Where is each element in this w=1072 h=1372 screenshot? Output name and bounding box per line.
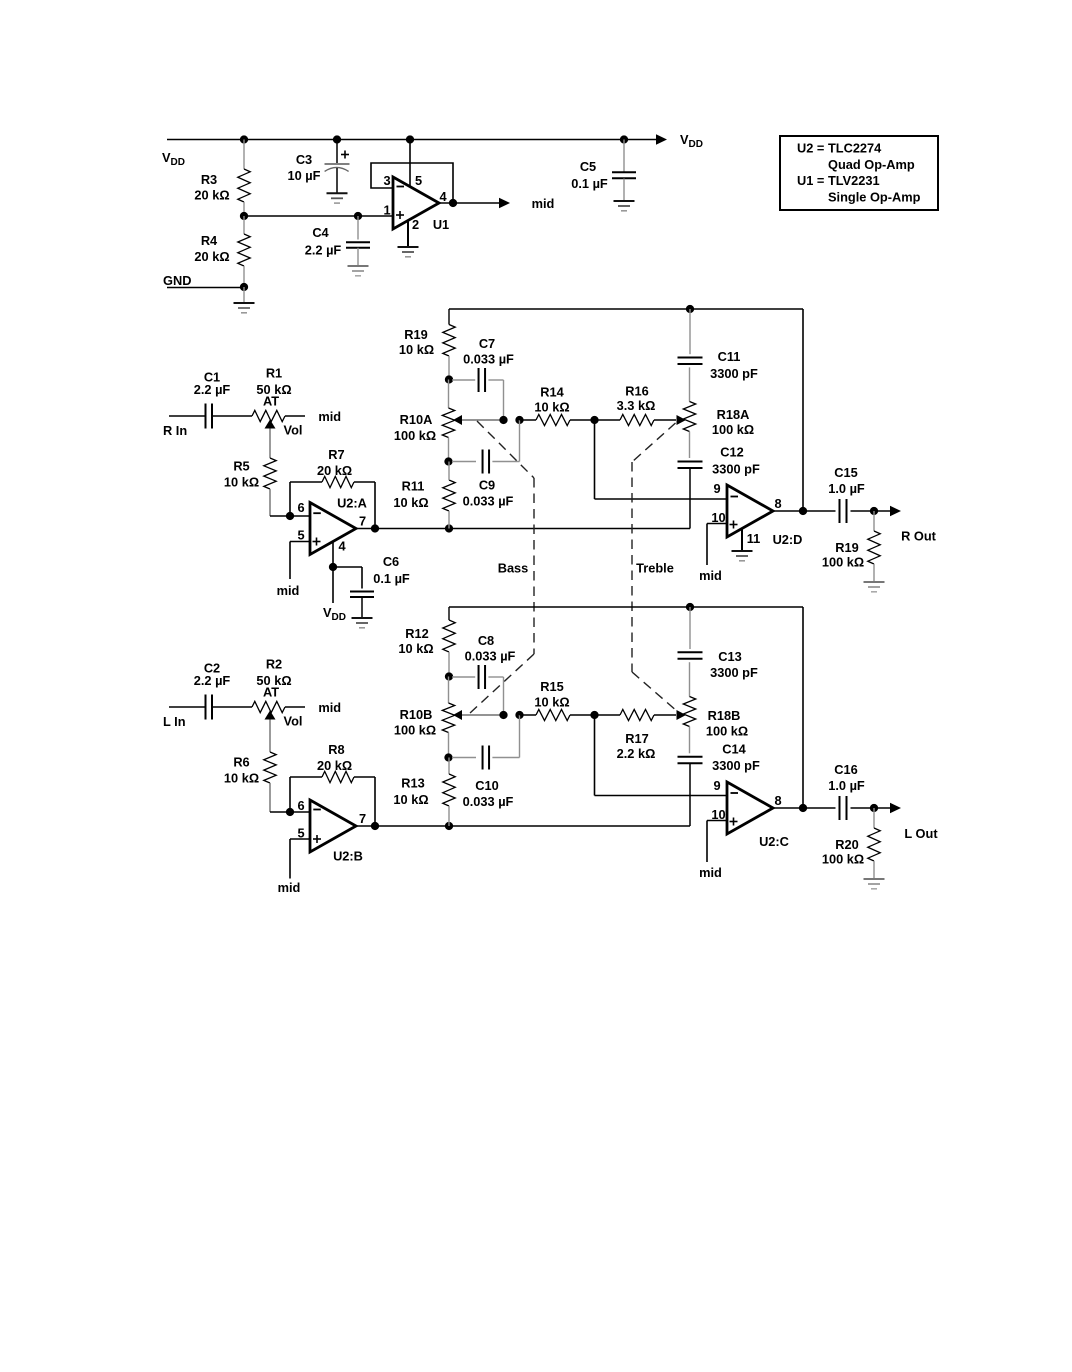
wire U2A pin4: [332, 542, 334, 568]
info box: [780, 136, 938, 210]
wire C2 to R2: [212, 706, 252, 708]
label R19 upper: [399, 327, 434, 357]
plus U2B: [313, 835, 321, 843]
svg-text:10 kΩ: 10 kΩ: [398, 641, 433, 656]
svg-text:3300 pF: 3300 pF: [710, 366, 758, 381]
svg-text:10 kΩ: 10 kΩ: [534, 695, 569, 710]
svg-text:C13: C13: [718, 649, 741, 664]
label C2: [194, 661, 231, 689]
svg-text:C15: C15: [834, 465, 857, 480]
svg-text:1: 1: [383, 203, 390, 218]
label C5: [571, 159, 608, 191]
pin 10 label U2C: [711, 807, 725, 822]
arrow mid U1: [499, 198, 510, 208]
node U2A out: [371, 524, 379, 532]
svg-text:R18B: R18B: [708, 708, 741, 723]
svg-text:C10: C10: [475, 778, 498, 793]
label L In: [163, 714, 186, 729]
svg-text:mid: mid: [699, 865, 722, 880]
node wiper-C10: [515, 711, 523, 719]
resistor R19 out: [868, 511, 880, 582]
pin 8 label U2D: [774, 496, 781, 511]
svg-text:10 kΩ: 10 kΩ: [393, 792, 428, 807]
wire GND: [167, 287, 244, 289]
wire pin4 to VDD: [332, 567, 334, 603]
plus mark C3: [341, 151, 349, 159]
wire lower feedback top: [449, 606, 803, 608]
wire U2A output row: [356, 528, 690, 530]
svg-text:R2: R2: [266, 657, 282, 672]
capacitor C15: [840, 499, 847, 523]
svg-text:4: 4: [338, 539, 346, 554]
node R15-R17: [590, 711, 598, 719]
potentiometer R10A: [442, 380, 454, 462]
svg-text:100 kΩ: 100 kΩ: [394, 723, 436, 738]
potentiometer R2: [252, 701, 285, 712]
svg-text:20 kΩ: 20 kΩ: [194, 188, 229, 203]
svg-text:3300 pF: 3300 pF: [712, 758, 760, 773]
wire U1 pin2: [407, 221, 409, 248]
node wiper-C7: [499, 416, 507, 424]
svg-text:R5: R5: [233, 459, 249, 474]
svg-text:R13: R13: [401, 776, 424, 791]
node R19 out top: [870, 507, 878, 515]
wire R2 to mid: [285, 706, 305, 708]
svg-text:3300 pF: 3300 pF: [712, 462, 760, 477]
potentiometer R18A: [683, 367, 695, 458]
dashed Treble link: [632, 423, 678, 712]
resistor R16: [595, 414, 677, 425]
label R12: [398, 626, 433, 656]
svg-text:100 kΩ: 100 kΩ: [706, 724, 748, 739]
wire upper feedback top: [449, 308, 803, 310]
wire U1 pin5: [409, 140, 411, 188]
svg-text:100 kΩ: 100 kΩ: [822, 555, 864, 570]
label C14: [712, 742, 760, 774]
pin 4 label U2A: [338, 539, 346, 554]
svg-text:10 kΩ: 10 kΩ: [224, 771, 259, 786]
capacitor C9: [452, 450, 520, 474]
label mid U2D: [699, 568, 722, 583]
label mid U2B: [278, 880, 301, 895]
capacitor C8: [452, 665, 504, 689]
wire R8 right leg: [374, 777, 376, 826]
pin 5 label U2A: [297, 528, 304, 543]
label Bass: [498, 561, 529, 576]
svg-text:L In: L In: [163, 714, 186, 729]
info text line4: [828, 189, 921, 204]
arrow R Out: [890, 506, 901, 516]
svg-text:4: 4: [439, 189, 447, 204]
wire R1 to mid: [285, 415, 305, 417]
svg-text:R19: R19: [835, 540, 858, 555]
wire R7 left leg: [289, 482, 291, 516]
node wiper-C8: [499, 711, 507, 719]
wire U2C output: [773, 807, 836, 809]
node R10B bottom: [444, 753, 452, 761]
plus U1 pin1: [396, 211, 404, 219]
wiper arrow R2: [265, 711, 276, 720]
resistor R11: [443, 462, 455, 529]
svg-text:AT: AT: [263, 394, 279, 409]
svg-text:GND: GND: [163, 273, 191, 288]
label R18A: [712, 407, 754, 437]
wire R6 to pin6: [270, 811, 290, 813]
svg-text:Bass: Bass: [498, 561, 529, 576]
svg-text:mid: mid: [278, 880, 301, 895]
svg-text:AT: AT: [263, 685, 279, 700]
node VDD-C3: [333, 135, 341, 143]
svg-text:R15: R15: [540, 679, 563, 694]
plus U2A: [313, 538, 321, 546]
wire U2D output: [773, 510, 836, 512]
svg-text:10 µF: 10 µF: [288, 168, 321, 183]
label R15: [534, 679, 569, 710]
label R8: [317, 742, 352, 773]
wire VDD rail: [167, 139, 656, 141]
label R2: [256, 657, 291, 700]
node C11 top: [686, 305, 694, 313]
svg-text:2.2 µF: 2.2 µF: [305, 243, 342, 258]
node R13 bottom: [445, 822, 453, 830]
svg-text:R11: R11: [402, 479, 425, 494]
wire mid rail to U1 pin1: [244, 215, 393, 217]
svg-text:mid: mid: [699, 568, 722, 583]
svg-text:9: 9: [713, 778, 720, 793]
capacitor C12: [678, 462, 703, 529]
wire pin6 U2B: [290, 811, 310, 813]
node VDD-C5: [620, 135, 628, 143]
ground R19 out: [864, 582, 885, 592]
svg-text:R12: R12: [405, 626, 428, 641]
label VDD U2A: [323, 605, 346, 623]
pin 5 label U2B: [297, 826, 304, 841]
svg-text:20 kΩ: 20 kΩ: [317, 463, 352, 478]
svg-text:7: 7: [359, 514, 366, 529]
pin 6 label U2A: [297, 500, 304, 515]
svg-text:0.1 µF: 0.1 µF: [571, 176, 608, 191]
svg-text:0.033 µF: 0.033 µF: [465, 649, 516, 664]
label C3: [288, 152, 321, 183]
svg-text:7: 7: [359, 811, 366, 826]
svg-text:10 kΩ: 10 kΩ: [393, 495, 428, 510]
label R18B: [706, 708, 748, 739]
label C13: [710, 649, 758, 680]
node R11 bottom: [445, 524, 453, 532]
svg-text:R16: R16: [625, 384, 648, 399]
svg-text:20 kΩ: 20 kΩ: [317, 758, 352, 773]
pin 3 label U1: [383, 173, 390, 188]
svg-text:U2:D: U2:D: [773, 532, 803, 547]
svg-text:3: 3: [383, 173, 390, 188]
label U2:A: [337, 496, 367, 511]
svg-text:3.3 kΩ: 3.3 kΩ: [617, 398, 656, 413]
ground below R4: [234, 287, 255, 313]
svg-text:R20: R20: [835, 837, 858, 852]
wire R14 junction to U2D pin9: [595, 420, 728, 499]
label mid U2A: [277, 583, 300, 598]
ground U1 pin2: [398, 247, 419, 257]
wire U1 output: [439, 202, 499, 204]
label R1: [256, 366, 291, 409]
label U2:B: [333, 849, 363, 864]
capacitor C6: [350, 592, 374, 618]
pin 5 label U1: [415, 173, 422, 188]
pin 9 label U2C: [713, 778, 720, 793]
ground C6: [352, 618, 373, 628]
svg-text:2: 2: [412, 217, 419, 232]
label GND: [163, 273, 191, 288]
resistor R7: [290, 476, 375, 487]
svg-text:mid: mid: [318, 409, 341, 424]
node GND-R4: [240, 283, 248, 291]
wiper arrow R18A: [677, 415, 687, 425]
wire wiper to R15: [520, 714, 537, 716]
svg-text:11: 11: [747, 531, 761, 546]
svg-text:10 kΩ: 10 kΩ: [224, 475, 259, 490]
capacitor C13: [678, 607, 703, 659]
label R14: [534, 385, 569, 415]
wire R10B wiper: [462, 714, 504, 716]
info text line1: [797, 141, 882, 156]
node VDD-pin5: [406, 135, 414, 143]
minus U2B: [313, 809, 321, 811]
wiper arrow R1: [265, 420, 276, 429]
label C10: [463, 778, 514, 809]
node mid-rail junction: [240, 212, 248, 220]
label R10B: [394, 707, 436, 738]
svg-text:Quad Op-Amp: Quad Op-Amp: [828, 157, 915, 172]
pin 9 label U2D: [713, 481, 720, 496]
node R10A bottom: [444, 457, 452, 465]
info text line2: [828, 157, 915, 172]
wire pin6: [290, 515, 310, 517]
resistor R6: [264, 752, 276, 812]
svg-text:0.033 µF: 0.033 µF: [463, 352, 514, 367]
wire L In: [169, 706, 205, 708]
ground U2D pin11: [732, 551, 753, 561]
svg-text:U2:B: U2:B: [333, 849, 363, 864]
resistor R3: [238, 140, 250, 217]
svg-text:R In: R In: [163, 423, 187, 438]
svg-text:U2:C: U2:C: [759, 834, 789, 849]
label Vol R1: [284, 423, 303, 438]
pin 6 label U2B: [297, 798, 304, 813]
potentiometer R1: [252, 410, 285, 421]
label C15: [828, 465, 865, 496]
wiper arrow R10B: [453, 710, 462, 720]
svg-text:Vol: Vol: [284, 423, 303, 438]
label R13: [393, 776, 428, 808]
minus U1 pin3: [397, 186, 405, 188]
resistor R20: [868, 808, 880, 879]
wire lower feedback right: [802, 607, 804, 808]
svg-text:R7: R7: [328, 447, 344, 462]
dashed Bass link: [470, 421, 534, 713]
minus U2C: [731, 792, 739, 794]
capacitor C11: [678, 309, 703, 364]
label C16: [828, 762, 865, 793]
label C11: [710, 349, 758, 381]
svg-text:R8: R8: [328, 742, 344, 757]
capacitor C14: [678, 757, 703, 826]
capacitor C10: [452, 746, 520, 770]
resistor R8: [290, 771, 375, 782]
plus U2D: [730, 521, 738, 529]
label C12: [712, 445, 760, 477]
wire R7 right leg: [374, 482, 376, 529]
svg-text:C7: C7: [479, 336, 495, 351]
label U2:C: [759, 834, 789, 849]
wire C10 to wiper: [519, 715, 521, 758]
svg-text:C4: C4: [312, 225, 329, 240]
label Treble: [636, 561, 674, 576]
wire C9 to wiper: [519, 420, 521, 462]
node VDD-R3: [240, 135, 248, 143]
node C4 tap: [354, 212, 362, 220]
label VDD left: [162, 150, 185, 168]
label mid U2C: [699, 865, 722, 880]
svg-text:C6: C6: [383, 554, 399, 569]
label mid R1: [318, 409, 341, 424]
svg-text:C14: C14: [722, 742, 746, 757]
svg-text:R10A: R10A: [400, 412, 433, 427]
label R6: [224, 755, 259, 786]
wire R15 junction to U2C pin9: [595, 715, 728, 796]
wire C8 to wiper: [503, 677, 505, 715]
wire R10A wiper: [462, 419, 504, 421]
svg-text:5: 5: [297, 528, 304, 543]
svg-text:3300 pF: 3300 pF: [710, 665, 758, 680]
svg-text:R4: R4: [201, 233, 218, 248]
plus U2C: [730, 818, 738, 826]
wire R1 wiper: [269, 429, 271, 459]
ground C3: [327, 193, 348, 203]
svg-text:U2:A: U2:A: [337, 496, 367, 511]
power arrow VDD rail: [656, 134, 667, 144]
op-amp U1: [393, 177, 439, 229]
wire R In: [169, 415, 205, 417]
resistor R13: [443, 758, 455, 827]
resistor R4: [238, 216, 250, 287]
wiper arrow R18B: [677, 710, 687, 720]
svg-text:C5: C5: [580, 159, 596, 174]
svg-text:100 kΩ: 100 kΩ: [394, 428, 436, 443]
node R14-R16: [590, 416, 598, 424]
svg-text:Single Op-Amp: Single Op-Amp: [828, 189, 921, 204]
svg-text:R19: R19: [404, 327, 427, 342]
info text line3: [797, 173, 880, 188]
wire C15 to R Out: [851, 510, 891, 512]
label mid R2: [318, 700, 341, 715]
svg-text:8: 8: [774, 496, 781, 511]
label C1: [194, 370, 231, 398]
label R17: [617, 731, 656, 761]
wire C1 to R1: [212, 415, 252, 417]
capacitor C5: [612, 140, 636, 202]
wire C7 to wiper: [503, 380, 505, 420]
node U2A pin6: [286, 512, 294, 520]
pin 2 label U1: [412, 217, 419, 232]
op-amp U2:A: [310, 503, 356, 555]
svg-text:C8: C8: [478, 633, 494, 648]
svg-text:R18A: R18A: [717, 407, 750, 422]
svg-text:R Out: R Out: [901, 529, 937, 544]
label C4: [305, 225, 342, 258]
wire U2B output row: [356, 825, 690, 827]
node C13 top: [686, 603, 694, 611]
arrow L Out: [890, 803, 901, 813]
pin 8 label U2C: [774, 793, 781, 808]
wire U2B pin5 to mid: [290, 839, 310, 879]
svg-text:10 kΩ: 10 kΩ: [399, 342, 434, 357]
svg-text:0.033 µF: 0.033 µF: [463, 794, 514, 809]
capacitor C1: [206, 404, 213, 429]
wire U2C pin10 to mid: [707, 821, 727, 863]
svg-text:mid: mid: [277, 583, 300, 598]
potentiometer R10B: [442, 677, 454, 758]
resistor R12: [443, 607, 455, 677]
node U2B out: [371, 822, 379, 830]
svg-text:10 kΩ: 10 kΩ: [534, 400, 569, 415]
resistor R15: [536, 709, 595, 720]
label R16: [617, 384, 656, 414]
svg-text:6: 6: [297, 500, 304, 515]
wire U2D pin11: [741, 529, 743, 552]
label C7: [463, 336, 514, 367]
svg-text:R10B: R10B: [400, 707, 433, 722]
label C6: [373, 554, 410, 586]
svg-text:2.2 µF: 2.2 µF: [194, 382, 231, 397]
wire C16 to L Out: [851, 807, 891, 809]
svg-text:C11: C11: [718, 349, 741, 364]
svg-text:0.1 µF: 0.1 µF: [373, 571, 410, 586]
label Vol R2: [284, 714, 303, 729]
label U2:D: [773, 532, 803, 547]
label R4: [194, 233, 229, 264]
svg-text:20 kΩ: 20 kΩ: [194, 249, 229, 264]
pin 1 label U1: [383, 203, 390, 218]
op-amp U2:D: [727, 485, 773, 537]
svg-text:6: 6: [297, 798, 304, 813]
capacitor C2: [206, 695, 213, 720]
node wiper-C9: [515, 416, 523, 424]
minus U2A: [313, 512, 321, 514]
pin 7 label U2A: [359, 514, 366, 529]
label R7: [317, 447, 352, 478]
svg-text:1.0 µF: 1.0 µF: [828, 778, 865, 793]
svg-text:100 kΩ: 100 kΩ: [822, 852, 864, 867]
svg-text:R1: R1: [266, 366, 282, 381]
svg-text:1.0 µF: 1.0 µF: [828, 481, 865, 496]
capacitor C16: [840, 796, 847, 820]
wire U2D pin10 to mid: [707, 524, 727, 566]
svg-text:R6: R6: [233, 755, 249, 770]
wire R8 left leg: [289, 777, 291, 812]
node U1 output: [449, 199, 457, 207]
svg-text:Treble: Treble: [636, 561, 674, 576]
resistor R17: [595, 709, 677, 720]
op-amp U2:B: [310, 800, 356, 852]
label L Out: [904, 826, 938, 841]
svg-text:2.2 µF: 2.2 µF: [194, 673, 231, 688]
label R10A: [394, 412, 436, 443]
svg-text:mid: mid: [318, 700, 341, 715]
svg-text:100 kΩ: 100 kΩ: [712, 422, 754, 437]
svg-text:C3: C3: [296, 152, 312, 167]
svg-text:5: 5: [415, 173, 422, 188]
svg-text:R3: R3: [201, 172, 217, 187]
